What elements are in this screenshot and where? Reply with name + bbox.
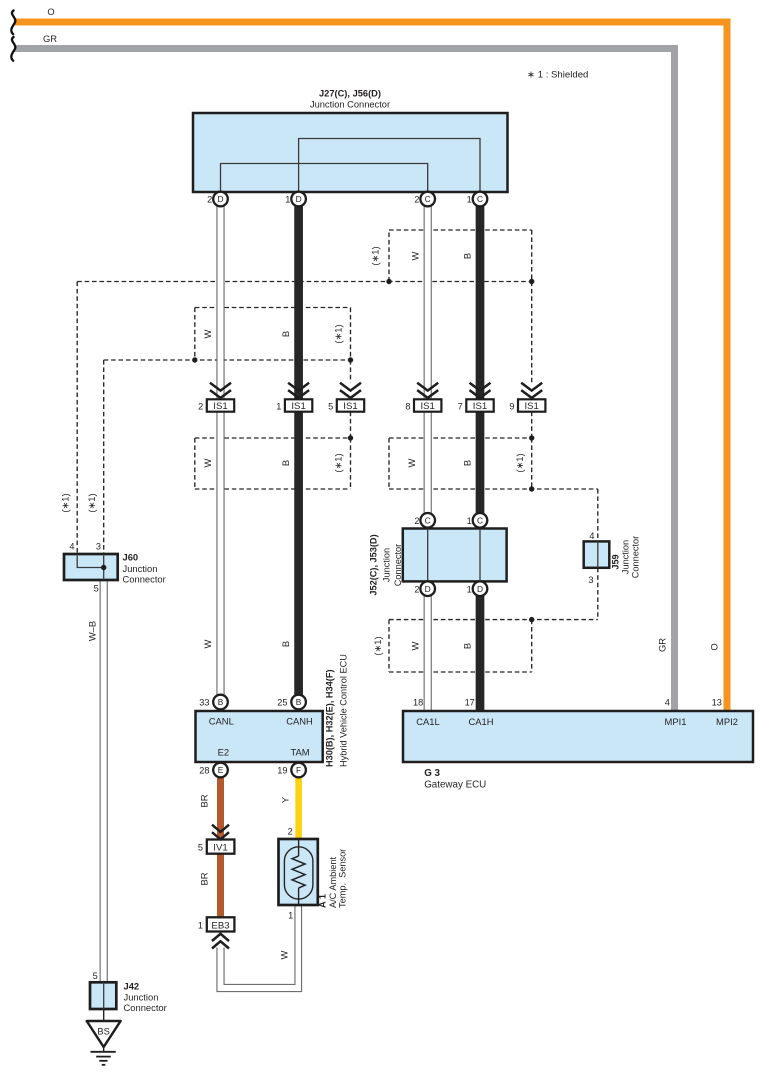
svg-text:(∗1): (∗1)	[60, 493, 71, 512]
pin 2 C of J27	[414, 192, 435, 207]
svg-text:2: 2	[414, 584, 419, 594]
label BR upper	[199, 794, 210, 807]
wire shield from J59 pin 3	[597, 568, 599, 620]
label B box below J52	[462, 643, 473, 649]
svg-text:IS1: IS1	[420, 401, 434, 412]
label (*1) shield drain left outer	[60, 493, 71, 512]
pin 2 D of J52	[414, 581, 435, 596]
wire Y (HV-ECU 19F to A1 pin2)	[295, 777, 302, 840]
svg-text:13: 13	[712, 697, 722, 707]
svg-text:D: D	[296, 194, 302, 204]
pin 18 of Gateway ECU	[413, 697, 423, 707]
svg-text:Connector: Connector	[124, 1002, 167, 1013]
shield box lower-right edges	[389, 438, 532, 489]
svg-text:IS1: IS1	[524, 401, 538, 412]
svg-text:5: 5	[328, 401, 333, 411]
continuation brace for wire GR	[11, 37, 15, 61]
node shield right box top corner	[529, 435, 534, 440]
splice arrow above 7 IS1	[470, 383, 491, 398]
svg-text:B: B	[280, 641, 291, 647]
svg-text:3: 3	[588, 575, 593, 585]
pin 33 B of HV-ECU	[199, 695, 228, 710]
svg-text:(∗1): (∗1)	[514, 453, 525, 472]
ground point BS triangle	[87, 1021, 121, 1047]
node shield bus B at x194	[192, 357, 197, 362]
wire internal J27: 2D to 2C	[221, 164, 428, 193]
svg-text:F: F	[296, 765, 301, 775]
svg-text:CA1H: CA1H	[468, 716, 493, 727]
shield dashed net around left CANL/CANH cable and drain to J60	[77, 230, 598, 672]
svg-text:IS1: IS1	[473, 401, 487, 412]
svg-text:IS1: IS1	[343, 401, 357, 412]
pin 1 C of J52	[467, 513, 488, 528]
splice arrow above IV1	[212, 825, 229, 840]
svg-text:7: 7	[458, 401, 463, 411]
svg-text:D: D	[425, 584, 431, 594]
wire W-B (J60 pin5 to J42)	[100, 580, 107, 983]
svg-text:B: B	[462, 253, 473, 259]
svg-text:C: C	[477, 516, 483, 526]
continuation brace for wire O	[11, 11, 15, 35]
svg-text:CANH: CANH	[286, 716, 313, 727]
label (*1) box mid-left	[333, 324, 344, 343]
svg-text:2: 2	[207, 195, 212, 205]
connector 1 IS1	[276, 399, 312, 412]
shield box mid-left top edge	[195, 307, 351, 309]
svg-text:1: 1	[467, 584, 472, 594]
shield box below J52 edges	[389, 620, 532, 672]
ECU H30 Hybrid Vehicle Control ECU box	[196, 654, 349, 767]
connector 5 IS1	[328, 399, 364, 412]
svg-text:33: 33	[199, 698, 209, 708]
wire GR gray main	[14, 49, 675, 712]
node shield below J52	[529, 617, 534, 622]
svg-text:4: 4	[589, 531, 594, 541]
svg-text:C: C	[425, 516, 431, 526]
svg-text:8: 8	[405, 401, 410, 411]
splice arrow above 8 IS1	[417, 383, 438, 398]
connector 5 IV1	[198, 840, 235, 854]
label GR wire vertical	[657, 638, 668, 652]
svg-text:GR: GR	[657, 638, 668, 652]
svg-text:W: W	[279, 950, 290, 959]
svg-text:A 1: A 1	[318, 894, 328, 908]
svg-text:Junction: Junction	[124, 992, 159, 1003]
svg-text:W: W	[202, 329, 213, 338]
pin 17 of Gateway ECU	[465, 697, 475, 707]
label W box mid-left	[202, 329, 213, 338]
svg-text:BR: BR	[199, 794, 210, 807]
splice arrow below EB3	[212, 934, 229, 949]
shield box upper-right left edge	[388, 230, 390, 282]
note shielded	[527, 70, 588, 81]
svg-text:Connector: Connector	[123, 574, 166, 585]
svg-text:Connector: Connector	[631, 536, 641, 578]
sensor A1 A/C Ambient Temp. Sensor box	[279, 839, 348, 908]
svg-text:(∗1): (∗1)	[370, 246, 381, 265]
node shield bus A at x531	[529, 279, 534, 284]
svg-text:IV1: IV1	[213, 843, 227, 854]
svg-text:B: B	[296, 697, 302, 707]
pin 1 of A1	[288, 911, 293, 921]
pin 1 C of J27	[467, 192, 488, 207]
label (*1) box lower-left	[333, 453, 344, 472]
wire shield horizontal bus y360	[104, 359, 351, 361]
connector 1 EB3	[198, 917, 235, 931]
svg-text:J27(C), J56(D): J27(C), J56(D)	[319, 89, 381, 99]
svg-text:28: 28	[199, 766, 209, 776]
label W box upper-right	[410, 251, 421, 260]
wire O orange main	[14, 22, 727, 711]
shield box lower-left edges	[195, 438, 351, 489]
svg-text:GR: GR	[43, 33, 57, 44]
svg-text:1: 1	[276, 401, 281, 411]
wire shield drain vertical to J60 pin 3	[103, 360, 105, 554]
node shield right box bottom corner	[529, 486, 534, 491]
splice arrow above 1 IS1	[288, 383, 309, 398]
label (*1) box lower-right	[514, 453, 525, 472]
wire shield horizontal y619	[389, 619, 598, 621]
svg-text:(∗1): (∗1)	[333, 453, 344, 472]
svg-text:W–B: W–B	[87, 621, 98, 641]
pin 2 D of J27	[207, 192, 228, 207]
svg-text:18: 18	[413, 697, 423, 707]
node shield left box corner	[348, 435, 353, 440]
wire B CANH (J27 1D to HV-ECU 25)	[294, 206, 303, 695]
svg-text:W: W	[202, 458, 213, 467]
svg-text:IS1: IS1	[291, 401, 305, 412]
svg-text:25: 25	[277, 698, 287, 708]
svg-text:5: 5	[198, 843, 203, 853]
svg-text:W: W	[410, 251, 421, 260]
label (*1) box upper-right	[370, 246, 381, 265]
svg-text:BS: BS	[97, 1026, 110, 1037]
svg-text:Junction: Junction	[382, 548, 392, 582]
svg-text:1: 1	[285, 195, 290, 205]
wire BR (HV-ECU 28E to IV1 to EB3)	[217, 777, 224, 918]
svg-text:G 3: G 3	[424, 768, 440, 779]
svg-text:O: O	[47, 6, 54, 17]
svg-text:E: E	[218, 765, 224, 775]
svg-text:2: 2	[198, 401, 203, 411]
svg-text:J60: J60	[123, 552, 139, 563]
svg-text:D: D	[477, 584, 483, 594]
svg-text:Junction: Junction	[621, 540, 631, 574]
svg-text:B: B	[280, 460, 291, 466]
svg-text:Connector: Connector	[393, 544, 403, 586]
wire B CA1H (J27 1C to J52 1C, J52 1D to Gateway 17)	[476, 206, 485, 712]
svg-text:4: 4	[69, 542, 74, 552]
connector 2 IS1	[198, 399, 234, 412]
label W-B wire	[87, 621, 98, 641]
label W box lower-left	[202, 458, 213, 467]
svg-text:W: W	[406, 458, 417, 467]
pin 13 of Gateway ECU	[712, 697, 722, 707]
svg-text:Hybrid Vehicle Control ECU: Hybrid Vehicle Control ECU	[339, 654, 349, 767]
svg-text:W: W	[202, 639, 213, 648]
svg-text:Gateway ECU: Gateway ECU	[424, 780, 486, 791]
node shield bus B at x350	[348, 357, 353, 362]
svg-text:5: 5	[93, 971, 98, 981]
svg-text:5: 5	[94, 584, 99, 594]
svg-text:EB3: EB3	[211, 921, 229, 932]
wire shield horizontal bus y281	[77, 281, 532, 283]
pin 28 E of HV-ECU	[199, 763, 228, 778]
wire shield below 5 IS1	[350, 412, 352, 439]
label B box mid-left	[280, 331, 291, 337]
wire shield bottom edge to J59	[389, 488, 598, 490]
svg-text:B: B	[280, 331, 291, 337]
wire shield drop to 5 IS1	[350, 360, 352, 383]
svg-text:MPI1: MPI1	[665, 716, 687, 727]
svg-text:C: C	[477, 194, 483, 204]
svg-text:Temp. Sensor: Temp. Sensor	[338, 849, 348, 908]
label B box lower-left	[280, 460, 291, 466]
junction connector J27(C),J56(D) box	[193, 89, 508, 193]
svg-text:CA1L: CA1L	[416, 716, 439, 727]
ground symbol	[91, 1047, 116, 1065]
connector 9 IS1	[509, 399, 545, 412]
node inside J60	[101, 565, 106, 570]
label O wire vertical	[709, 643, 720, 650]
svg-text:3: 3	[96, 542, 101, 552]
label W box below J52	[410, 641, 421, 650]
svg-text:1: 1	[467, 516, 472, 526]
junction connector J52(C),J53(D) box	[369, 529, 507, 596]
shield box mid-left left edge	[194, 308, 196, 361]
svg-text:2: 2	[414, 516, 419, 526]
splice arrow above 2 IS1	[210, 383, 231, 398]
svg-text:Y: Y	[280, 796, 291, 803]
svg-text:1: 1	[198, 920, 203, 930]
pin 1 D of J27	[285, 192, 306, 207]
svg-text:2: 2	[414, 195, 419, 205]
label W box lower-right	[406, 458, 417, 467]
wire internal J27: 1D to 1C	[299, 139, 480, 193]
ECU G3 Gateway ECU box	[403, 711, 753, 791]
svg-text:Junction: Junction	[123, 563, 158, 574]
svg-text:1: 1	[288, 911, 293, 921]
shield box mid-left right edge	[350, 308, 352, 361]
wire W CANL (J27 2D to HV-ECU 33)	[217, 206, 224, 695]
svg-text:E2: E2	[218, 747, 229, 758]
svg-text:B: B	[218, 697, 224, 707]
svg-text:IS1: IS1	[213, 401, 227, 412]
label GR	[43, 33, 57, 44]
node shield bus A at x389	[386, 279, 391, 284]
svg-text:(∗1): (∗1)	[86, 493, 97, 512]
label O	[47, 6, 54, 17]
pin 25 B of HV-ECU	[277, 695, 306, 710]
svg-text:(∗1): (∗1)	[372, 636, 383, 655]
svg-text:J42: J42	[124, 981, 140, 992]
svg-text:19: 19	[277, 766, 287, 776]
connector 8 IS1	[405, 399, 441, 412]
svg-text:W: W	[410, 641, 421, 650]
svg-text:9: 9	[509, 401, 514, 411]
label B box lower-right	[462, 460, 473, 466]
splice arrow above 5 IS1	[340, 383, 361, 398]
wire shield drop to J59 pin 4	[597, 489, 599, 541]
pin 19 F of HV-ECU	[277, 763, 306, 778]
pin 2 C of J52	[414, 513, 435, 528]
label BR lower	[199, 872, 210, 885]
svg-text:O: O	[709, 643, 720, 650]
svg-text:(∗1): (∗1)	[333, 324, 344, 343]
svg-text:MPI2: MPI2	[716, 716, 738, 727]
svg-text:17: 17	[465, 697, 475, 707]
wire J42 to ground point BS	[103, 1009, 105, 1021]
wire W CA1L (J27 2C to J52 2C, J52 2D to Gateway 18)	[424, 206, 431, 712]
pin 2 of A1	[288, 826, 293, 836]
label (*1) shield drain left inner	[86, 493, 97, 512]
svg-text:1: 1	[467, 195, 472, 205]
svg-text:Junction Connector: Junction Connector	[310, 100, 390, 110]
junction connector J60 box	[64, 542, 166, 594]
svg-text:D: D	[217, 194, 223, 204]
wire shield drop to 9 IS1	[531, 282, 533, 383]
svg-text:BR: BR	[199, 872, 210, 885]
pin 1 D of J52	[467, 581, 488, 596]
svg-text:B: B	[462, 460, 473, 466]
label W wire CANL	[202, 639, 213, 648]
svg-text:2: 2	[288, 826, 293, 836]
connector 7 IS1	[458, 399, 494, 412]
svg-text:J59: J59	[611, 554, 621, 569]
resistor element inside A1	[292, 856, 305, 888]
svg-text:TAM: TAM	[290, 747, 309, 758]
splice arrow above 9 IS1	[521, 383, 542, 398]
wire shield below 9 IS1	[531, 412, 533, 439]
svg-text:∗ 1 : Shielded: ∗ 1 : Shielded	[527, 70, 588, 81]
svg-text:B: B	[462, 643, 473, 649]
svg-text:H30(B), H32(E), H34(F): H30(B), H32(E), H34(F)	[325, 669, 335, 767]
label W wire loop	[279, 950, 290, 959]
label B box upper-right	[462, 253, 473, 259]
shield box upper-right top edge	[389, 229, 532, 231]
svg-text:C: C	[425, 194, 431, 204]
shield box upper-right right edge	[531, 230, 533, 282]
pin 4 of Gateway ECU	[665, 697, 670, 707]
label Y wire	[280, 796, 291, 803]
svg-text:A/C Ambient: A/C Ambient	[328, 856, 338, 908]
junction connector J59 box	[584, 531, 641, 585]
wire shield drain vertical to J60 pin 4	[76, 282, 78, 554]
svg-text:4: 4	[665, 697, 670, 707]
svg-text:J52(C), J53(D): J52(C), J53(D)	[369, 534, 379, 595]
label (*1) box below J52	[372, 636, 383, 655]
junction connector J42 box	[90, 971, 167, 1013]
label B wire CANH	[280, 641, 291, 647]
wire W loop (EB3 to A1 pin1)	[217, 905, 302, 992]
svg-text:CANL: CANL	[209, 716, 234, 727]
